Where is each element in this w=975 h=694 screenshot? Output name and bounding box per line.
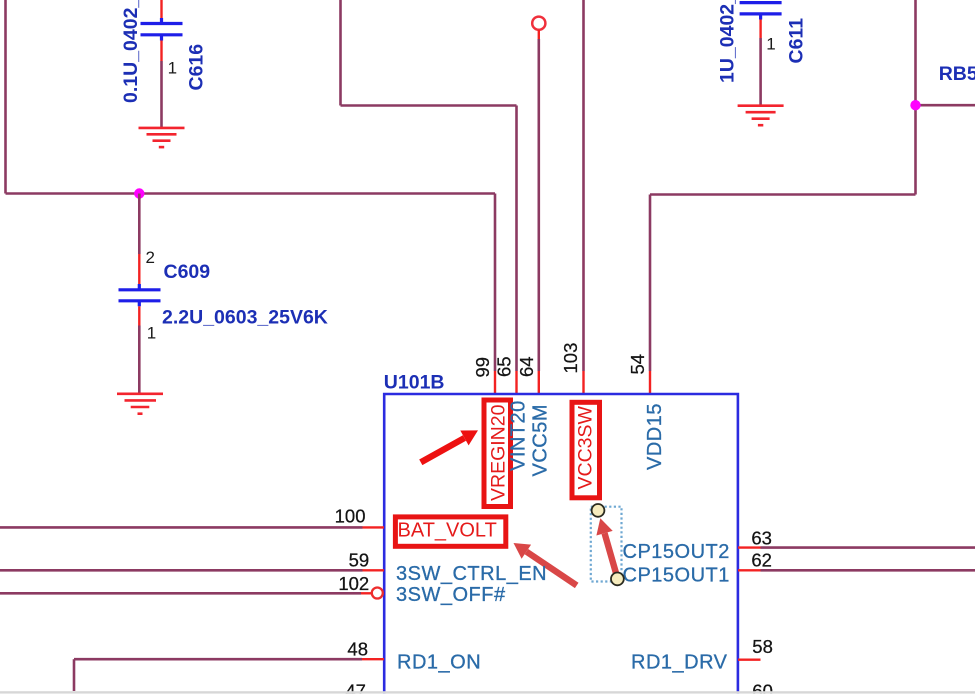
svg-text:54: 54 [627, 354, 648, 375]
svg-text:48: 48 [347, 639, 368, 660]
svg-text:3SW_OFF#: 3SW_OFF# [396, 584, 506, 606]
svg-text:59: 59 [349, 550, 370, 571]
svg-text:CP15OUT2: CP15OUT2 [623, 541, 730, 563]
wire left border vertical [4, 0, 7, 194]
ground C616 [139, 128, 185, 147]
ground C611 [738, 106, 784, 126]
junction dot RB5 [910, 100, 920, 110]
svg-text:99: 99 [472, 357, 493, 378]
highlight box VCC3SW [572, 402, 600, 498]
pin 102 wire [0, 592, 361, 595]
svg-text:1: 1 [766, 35, 775, 54]
svg-text:VINT20: VINT20 [508, 400, 530, 471]
wire C611 to ground [759, 38, 762, 106]
wire vertical to pin 65 [515, 106, 518, 372]
IC U101B box [384, 394, 738, 694]
svg-text:RD1_ON: RD1_ON [397, 652, 481, 674]
arrow to BAT_VOLT [514, 543, 579, 588]
pin stub 99 [494, 371, 496, 394]
bottom gray band [0, 691, 975, 693]
handle circle bottom [611, 573, 624, 586]
pin stub 64 [538, 371, 540, 394]
svg-text:0.1U_0402_: 0.1U_0402_ [120, 0, 142, 103]
pin stub below circle [538, 30, 540, 39]
svg-text:RB5: RB5 [939, 63, 975, 85]
svg-text:103: 103 [560, 343, 581, 374]
capacitor C616 lead red lower [160, 41, 162, 62]
pin 58 stub [738, 659, 761, 661]
wire horizontal main left [6, 192, 496, 195]
svg-text:VDD15: VDD15 [644, 403, 666, 470]
wire vertical to pin 99 [494, 194, 497, 372]
highlight box BAT_VOLT [395, 517, 505, 546]
junction dot C609 [134, 188, 144, 198]
svg-text:2.2U_0603_25V6K: 2.2U_0603_25V6K [162, 307, 328, 329]
svg-text:64: 64 [516, 356, 537, 377]
svg-text:63: 63 [751, 528, 772, 549]
svg-text:VCC5M: VCC5M [530, 404, 552, 477]
svg-text:C609: C609 [164, 261, 211, 283]
svg-text:102: 102 [338, 573, 369, 594]
capacitor C609 plates [138, 284, 141, 290]
svg-text:1: 1 [168, 59, 177, 78]
wire horizontal y105 [341, 104, 517, 107]
capacitor C611 plates [740, 1, 782, 4]
capacitor C609 lead red upper [138, 254, 140, 285]
pin 100 wire [0, 526, 363, 529]
svg-text:CP15OUT1: CP15OUT1 [623, 564, 730, 586]
pin stub 65 [515, 371, 517, 394]
wire vertical to pin 64 [537, 39, 540, 371]
wire vertical right x915 [914, 0, 917, 195]
pin 48 wire [73, 659, 76, 691]
pin stub 54 [649, 371, 651, 394]
capacitor C616 lead red upper [160, 0, 162, 19]
svg-text:62: 62 [751, 550, 772, 571]
wire C609 branch upper [138, 194, 141, 255]
wire C609 to ground [138, 326, 141, 394]
pin 102 bubble [372, 588, 383, 599]
wire horizontal right y194 [650, 193, 916, 196]
arrow to VREGIN20 [419, 430, 478, 465]
svg-text:1: 1 [147, 324, 156, 343]
no-connect circle top [532, 17, 545, 30]
wire vertical to pin 54 [649, 195, 652, 372]
svg-text:VCC3SW: VCC3SW [575, 405, 597, 489]
ground C609 [117, 394, 163, 414]
capacitor C609 lead red lower [138, 306, 140, 325]
pin 62 wire [738, 569, 761, 571]
svg-text:BAT_VOLT: BAT_VOLT [398, 520, 497, 542]
svg-text:C611: C611 [786, 18, 808, 64]
wire vertical x340 top [339, 0, 342, 106]
svg-text:58: 58 [752, 636, 773, 657]
pin 63 wire [738, 546, 761, 548]
svg-text:2: 2 [146, 248, 155, 267]
svg-text:100: 100 [335, 506, 366, 527]
highlight box VREGIN20 [484, 400, 511, 507]
arrow to CP15 handle [596, 518, 619, 575]
svg-text:U101B: U101B [384, 372, 445, 394]
handle circle top [592, 504, 605, 517]
svg-text:C616: C616 [186, 44, 208, 91]
wire C616 to ground [160, 61, 163, 128]
svg-text:RD1_DRV: RD1_DRV [631, 652, 728, 674]
svg-text:VREGIN20: VREGIN20 [488, 404, 510, 501]
wire horizontal RB5 branch [916, 104, 975, 107]
svg-text:1U_0402_: 1U_0402_ [717, 0, 739, 83]
selection dashed box [591, 507, 622, 582]
wire vertical to pin 103 [582, 0, 585, 371]
pin 59 wire [0, 569, 363, 572]
pin stub 103 [582, 371, 584, 394]
svg-text:65: 65 [494, 356, 515, 377]
svg-text:3SW_CTRL_EN: 3SW_CTRL_EN [396, 563, 547, 585]
capacitor C611 lead red lower [759, 20, 761, 39]
capacitor C616 plates [160, 18, 163, 24]
